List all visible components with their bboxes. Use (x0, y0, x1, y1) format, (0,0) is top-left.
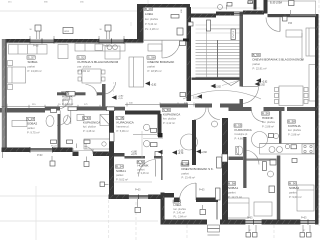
svg-text:B_34: B_34 (116, 165, 123, 169)
svg-text:HODNIK: HODNIK (138, 164, 149, 168)
svg-text:parket: parket (62, 99, 69, 102)
svg-text:P: 2,41 m²: P: 2,41 m² (174, 212, 186, 215)
svg-text:DNEVNI BORAVAK S BLAGOVAONOM: DNEVNI BORAVAK S BLAGOVAONOM (253, 57, 305, 61)
svg-text:DNEVNI BORAVAK: DNEVNI BORAVAK (148, 60, 176, 64)
svg-text:SOBA2: SOBA2 (289, 186, 300, 190)
svg-text:ker. pločice: ker. pločice (174, 208, 187, 211)
svg-text:KUPAONICA: KUPAONICA (117, 120, 134, 124)
svg-text:P=08: P=08 (103, 46, 109, 48)
svg-text:P=03: P=03 (199, 190, 205, 192)
svg-text:SOBA1: SOBA1 (116, 169, 126, 173)
svg-text:KUHINJA: KUHINJA (288, 124, 301, 128)
svg-text:KUHINJA S BLAGOVAONOM: KUHINJA S BLAGOVAONOM (78, 60, 119, 64)
svg-text:SOBA1: SOBA1 (28, 60, 39, 64)
svg-text:B_50: B_50 (289, 182, 296, 186)
svg-text:S 0314 S: S 0314 S (193, 98, 203, 100)
svg-text:97: 97 (303, 230, 305, 232)
svg-text:DNEVNI BORAVAK S K.: DNEVNI BORAVAK S K. (182, 167, 214, 171)
svg-text:P=08: P=08 (33, 46, 39, 48)
svg-text:B_38: B_38 (182, 163, 189, 167)
svg-text:SOBA2: SOBA2 (27, 121, 38, 125)
svg-text:P: 3,46 m²: P: 3,46 m² (138, 172, 150, 175)
svg-text:+2,82: +2,82 (151, 85, 157, 87)
svg-text:B_06: B_06 (145, 7, 152, 11)
svg-text:parket: parket (138, 168, 145, 171)
svg-text:LOĐA: LOĐA (174, 203, 182, 207)
svg-text:+2,82: +2,82 (259, 85, 265, 87)
svg-text:KUPAONICA: KUPAONICA (163, 112, 180, 116)
svg-text:KUPAONICA: KUPAONICA (83, 120, 100, 124)
svg-text:B_56: B_56 (262, 112, 269, 116)
svg-text:S_52: S_52 (78, 56, 85, 60)
svg-text:P=03: P=03 (135, 190, 141, 192)
svg-text:97: 97 (249, 230, 251, 232)
svg-text:+2,82: +2,82 (215, 87, 221, 89)
svg-text:P=03: P=03 (301, 218, 307, 220)
svg-text:S_58: S_58 (148, 56, 155, 60)
svg-text:B_55: B_55 (235, 124, 242, 128)
svg-text:P=03: P=03 (247, 218, 253, 220)
svg-text:+0,70: +0,70 (131, 154, 137, 156)
svg-text:S_07: S_07 (27, 117, 34, 121)
svg-text:+2,82: +2,82 (201, 152, 207, 154)
svg-text:KUPAONICA: KUPAONICA (235, 128, 252, 132)
svg-text:P=03: P=03 (37, 155, 43, 157)
svg-text:+0,70: +0,70 (178, 153, 184, 155)
svg-text:B_58: B_58 (228, 182, 235, 186)
svg-text:S_56: S_56 (163, 108, 170, 112)
svg-text:B_3A: B_3A (174, 200, 181, 204)
svg-text:S_57: S_57 (28, 56, 35, 60)
svg-text:HODNIK: HODNIK (262, 116, 274, 120)
svg-text:B_58: B_58 (288, 120, 295, 124)
svg-text:17x17,6: 17x17,6 (233, 31, 235, 38)
svg-text:B_59: B_59 (253, 53, 260, 57)
svg-text:S_35: S_35 (117, 116, 124, 120)
svg-text:+2,82: +2,82 (262, 82, 268, 84)
svg-text:+2,82: +2,82 (118, 96, 124, 98)
svg-text:+1,05: +1,05 (178, 151, 184, 153)
svg-text:+1,80: +1,80 (131, 152, 137, 154)
svg-text:P: 3,48 m²: P: 3,48 m² (62, 103, 73, 106)
svg-text:PL: 2,84 m²: PL: 2,84 m² (174, 215, 187, 218)
svg-text:LOĐA: LOĐA (145, 12, 153, 16)
svg-text:SOBA1: SOBA1 (228, 186, 239, 190)
svg-text:S_53: S_53 (83, 116, 90, 120)
svg-text:B_56: B_56 (138, 160, 145, 164)
